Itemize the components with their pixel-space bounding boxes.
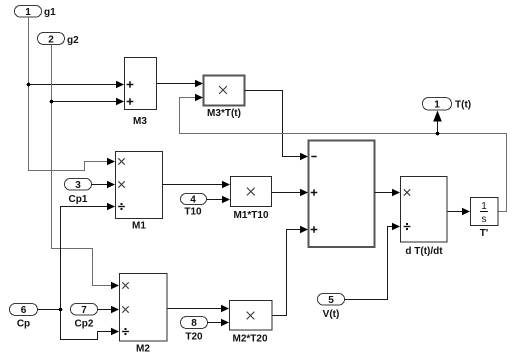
svg-text:Cp2: Cp2: [75, 319, 94, 330]
sum block M3: [125, 58, 157, 128]
inport 5 V(t): [318, 294, 345, 321]
wire dT(t)/dt to integrator: [448, 208, 471, 216]
junction dot g1 branch: [27, 83, 31, 87]
svg-text:M2: M2: [136, 344, 150, 355]
wire T20 to M2*T20: [208, 319, 230, 327]
svg-text:d T(t)/dt: d T(t)/dt: [405, 246, 443, 257]
svg-text:T10: T10: [184, 207, 202, 218]
svg-text:M1: M1: [132, 221, 146, 232]
svg-text:6: 6: [21, 305, 27, 316]
svg-text:V(t): V(t): [323, 309, 340, 320]
inport 1 g1: [15, 6, 57, 19]
inport 2 g2: [38, 33, 80, 47]
svg-text:3: 3: [75, 180, 81, 191]
product block M1*T10: [231, 177, 272, 222]
inport 6 Cp: [10, 304, 38, 330]
svg-text:1: 1: [481, 201, 487, 212]
wire M2*T20 to Sum plus input: [273, 226, 309, 316]
wire M2 to M2*T20: [168, 305, 230, 313]
svg-text:M3: M3: [133, 116, 147, 127]
wire feedback 1/s to M3*T(t) second input: [180, 94, 507, 212]
svg-text:g2: g2: [67, 35, 79, 46]
wire M3 to M3*T(t): [157, 80, 204, 88]
svg-text:Cp: Cp: [17, 319, 30, 330]
wire Cp1 to M1: [92, 181, 116, 189]
inport 3 Cp1: [65, 179, 92, 206]
wire T10 to M1*T10: [207, 196, 231, 204]
svg-text:1: 1: [434, 100, 440, 111]
inport 4 T10: [181, 194, 207, 218]
sum block Sum: [309, 141, 375, 248]
svg-text:2: 2: [48, 35, 54, 46]
outport 1 T(t): [423, 98, 472, 111]
svg-text:T': T': [480, 228, 489, 239]
product block M2: [120, 274, 168, 355]
svg-text:7: 7: [81, 305, 87, 316]
integrator block 1/s: [471, 198, 499, 240]
wire Cp to M1 divide and M2 divide: [38, 203, 120, 340]
svg-text:5: 5: [328, 295, 334, 306]
wire Cp2 to M2: [98, 306, 120, 314]
svg-text:s: s: [482, 214, 487, 225]
wire M1*T10 to Sum plus input: [272, 189, 309, 197]
wire V(t) to dT(t)/dt divide: [345, 223, 401, 300]
svg-text:T(t): T(t): [455, 100, 471, 111]
wire g1 to M3 and M1: [29, 17, 125, 171]
svg-text:T20: T20: [185, 332, 203, 343]
wire Sum to dT(t)/dt: [375, 189, 401, 197]
junction dot Cp branch: [59, 308, 63, 312]
wire M3*T(t) to Sum minus input: [245, 91, 309, 161]
product block M3*T(t): [204, 76, 245, 120]
inport 7 Cp2: [71, 304, 98, 330]
svg-text:8: 8: [191, 318, 197, 329]
svg-text:g1: g1: [44, 7, 56, 18]
svg-text:M1*T10: M1*T10: [233, 210, 268, 221]
junction dot g2 branch: [50, 100, 54, 104]
svg-text:M3*T(t): M3*T(t): [207, 108, 241, 119]
svg-text:Cp1: Cp1: [69, 194, 88, 205]
junction dot feedback branch: [436, 132, 440, 136]
product block dT(t)/dt: [401, 177, 448, 258]
svg-text:M2*T20: M2*T20: [232, 334, 267, 345]
product block M1: [116, 152, 163, 232]
inport 8 T20: [181, 317, 208, 343]
product block M2*T20: [230, 301, 273, 345]
wire g2 to M3 and M2: [52, 45, 125, 290]
svg-text:4: 4: [190, 195, 196, 206]
wire M1 to M1*T10: [163, 181, 231, 189]
wire branch to outport T(t): [433, 111, 442, 134]
svg-text:1: 1: [25, 7, 31, 18]
